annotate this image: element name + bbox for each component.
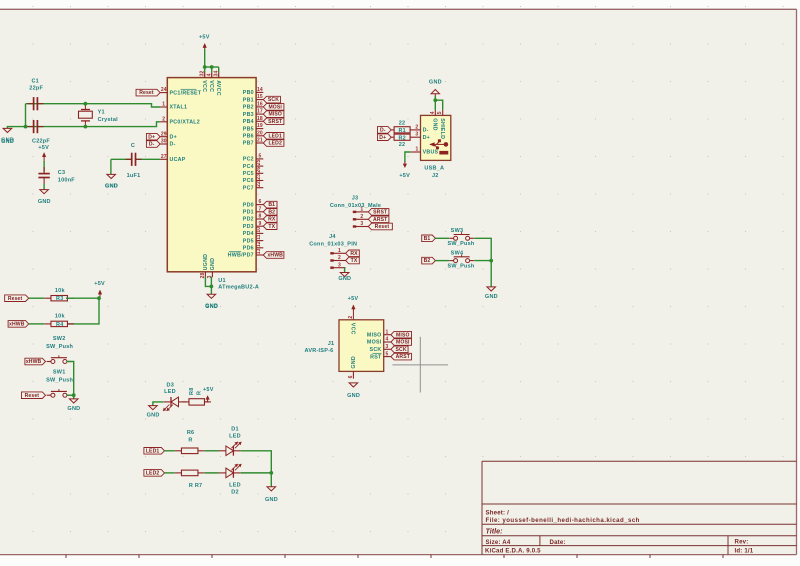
U1 pin 20 PB6 bbox=[243, 130, 263, 139]
svg-text:PD5: PD5 bbox=[243, 238, 254, 244]
svg-text:Reset: Reset bbox=[139, 90, 154, 96]
svg-text:MOSI: MOSI bbox=[396, 340, 410, 346]
svg-text:GND: GND bbox=[432, 118, 438, 131]
resistor R8 bbox=[182, 399, 211, 405]
J1 reference and value bbox=[305, 341, 335, 354]
U1 pin 8 PD2 bbox=[243, 214, 263, 223]
svg-text:KiCad E.D.A. 9.0.5: KiCad E.D.A. 9.0.5 bbox=[485, 548, 541, 555]
global label ARST at J1 pin 5 bbox=[391, 353, 412, 360]
wire UCAP net right bbox=[136, 158, 161, 160]
switch SW4 SW_Push bbox=[447, 250, 474, 269]
svg-text:PB0: PB0 bbox=[243, 90, 254, 96]
wire LED2 to R7 bbox=[165, 472, 175, 474]
R7 reference and value bbox=[189, 483, 203, 489]
crystal Y1 bbox=[79, 104, 93, 127]
U1 pin 26 PC5 bbox=[243, 167, 263, 177]
U1 pin 30 D- bbox=[160, 139, 176, 148]
svg-text:UGND: UGND bbox=[203, 254, 209, 271]
U1 reference and value bbox=[218, 278, 259, 291]
global label SCK at U1 pin 15 bbox=[263, 96, 280, 103]
svg-text:11: 11 bbox=[256, 234, 262, 240]
global label B1 at SW3 bbox=[422, 235, 436, 242]
ground at J4 bbox=[338, 273, 351, 283]
svg-text:6: 6 bbox=[348, 375, 354, 378]
global label D- at R1 bbox=[378, 127, 392, 134]
wire VCC drop 1 bbox=[204, 67, 206, 72]
global label LED1 at U1 pin 20 bbox=[263, 133, 284, 140]
svg-text:C1: C1 bbox=[31, 78, 39, 84]
svg-text:C: C bbox=[131, 143, 135, 149]
svg-text:6: 6 bbox=[258, 199, 261, 205]
wire xHWB to R4 bbox=[29, 323, 45, 325]
svg-text:Id: 1/1: Id: 1/1 bbox=[735, 547, 754, 554]
global label ARST at J3 pin 2 bbox=[368, 216, 389, 223]
svg-text:PD4: PD4 bbox=[243, 231, 254, 237]
power +5V above J1 bbox=[348, 296, 359, 320]
svg-text:10k: 10k bbox=[55, 314, 66, 320]
title block bbox=[482, 461, 797, 554]
R3 reference and value bbox=[55, 288, 66, 302]
svg-text:13: 13 bbox=[256, 248, 262, 254]
svg-text:B2: B2 bbox=[268, 209, 275, 215]
resistor R1 22 bbox=[391, 127, 410, 133]
U1 pin 10 PD4 bbox=[243, 227, 263, 237]
svg-text:xHWB: xHWB bbox=[267, 253, 283, 259]
wire junction to ground bbox=[73, 395, 75, 399]
svg-text:5: 5 bbox=[258, 154, 261, 160]
svg-text:D-: D- bbox=[380, 128, 386, 134]
U1 pin 6 PD0 bbox=[243, 199, 263, 208]
svg-text:Y1: Y1 bbox=[98, 110, 105, 116]
Y1 reference and value bbox=[98, 110, 119, 123]
svg-text:Sheet: /: Sheet: / bbox=[486, 509, 510, 516]
svg-text:Size: A4: Size: A4 bbox=[486, 539, 511, 546]
svg-text:Title:: Title: bbox=[486, 526, 504, 535]
global label D+ at U1 pin 29 bbox=[146, 133, 160, 140]
svg-text:R: R bbox=[188, 437, 192, 443]
svg-text:SCK: SCK bbox=[268, 97, 279, 103]
wire B2 to SW4 bbox=[435, 260, 449, 262]
svg-text:LED2: LED2 bbox=[268, 141, 282, 147]
svg-text:PB4: PB4 bbox=[243, 119, 254, 125]
svg-text:3: 3 bbox=[338, 262, 341, 268]
J3 pin 3 bbox=[353, 221, 369, 228]
cursor crosshair bbox=[392, 337, 448, 393]
junction SW1/SW2 gnd bbox=[72, 393, 76, 397]
wire XTAL1 net bbox=[26, 104, 161, 107]
svg-text:PD1: PD1 bbox=[243, 210, 254, 216]
global label xHWB at SW2 bbox=[25, 358, 46, 365]
J3 pin 1 bbox=[353, 207, 369, 213]
J2 USB icon bbox=[429, 139, 448, 149]
svg-text:SRST: SRST bbox=[268, 119, 283, 125]
svg-text:D-: D- bbox=[170, 142, 176, 148]
wire LED1 to R6 bbox=[165, 450, 175, 452]
U1 pin 19 PB5 bbox=[243, 123, 263, 132]
svg-text:LED: LED bbox=[229, 483, 241, 489]
svg-text:PC5: PC5 bbox=[243, 171, 254, 177]
svg-text:2: 2 bbox=[415, 124, 418, 130]
svg-text:5: 5 bbox=[385, 351, 388, 357]
svg-text:15: 15 bbox=[257, 94, 263, 100]
connector J3 Conn_01x03_Male bbox=[330, 196, 381, 209]
global label xHWB at R4 bbox=[8, 321, 29, 328]
svg-text:SW_Push: SW_Push bbox=[46, 378, 73, 384]
svg-text:B2: B2 bbox=[424, 258, 431, 264]
C2 reference and value bbox=[32, 139, 50, 145]
junction crystal bottom bbox=[84, 125, 88, 129]
svg-text:7: 7 bbox=[258, 206, 261, 212]
svg-text:GND: GND bbox=[147, 413, 160, 419]
svg-text:D1: D1 bbox=[231, 426, 239, 432]
svg-text:30: 30 bbox=[161, 139, 167, 145]
svg-text:Conn_01x03_PIN: Conn_01x03_PIN bbox=[309, 241, 357, 247]
svg-text:5: 5 bbox=[437, 111, 443, 114]
wire UGND to GND net under U1 bbox=[205, 277, 211, 287]
global label Reset at U1 pin 24 bbox=[136, 89, 160, 96]
global label LED2 at U1 pin 21 bbox=[263, 140, 284, 147]
ground below C3 bbox=[38, 190, 51, 205]
svg-text:SW1: SW1 bbox=[53, 370, 66, 376]
svg-text:R: R bbox=[197, 391, 203, 395]
svg-text:22: 22 bbox=[256, 181, 262, 187]
svg-text:D-: D- bbox=[149, 142, 155, 148]
svg-text:J3: J3 bbox=[352, 196, 359, 202]
svg-text:D+: D+ bbox=[423, 135, 430, 141]
junction LED gnd bbox=[269, 471, 273, 475]
J2 pin 1 VBUS bbox=[410, 147, 438, 156]
U1 pin 23 PC6 bbox=[243, 174, 263, 184]
J1 pin 1 MISO bbox=[367, 329, 391, 338]
svg-text:ARST: ARST bbox=[396, 354, 411, 360]
svg-text:SW_Push: SW_Push bbox=[447, 264, 474, 270]
wire VCC drop 2 bbox=[211, 67, 213, 72]
svg-text:PB6: PB6 bbox=[243, 134, 254, 140]
resistor R7 bbox=[175, 470, 205, 476]
svg-text:SCK: SCK bbox=[396, 347, 407, 353]
svg-text:LED: LED bbox=[164, 389, 176, 395]
svg-text:21: 21 bbox=[257, 138, 263, 144]
wire R3 to +5V junction bbox=[66, 297, 99, 299]
svg-text:GND: GND bbox=[347, 393, 360, 399]
U1 pin 34 AVCC bbox=[214, 71, 221, 96]
R6 reference and value bbox=[187, 430, 195, 443]
svg-text:SW2: SW2 bbox=[53, 336, 66, 342]
svg-text:RX: RX bbox=[350, 251, 358, 257]
wire B1 to SW3 bbox=[435, 237, 449, 239]
J1 pin 2 VCC bbox=[348, 316, 356, 335]
svg-text:GND: GND bbox=[1, 139, 14, 145]
U1 pin 16 PB2 bbox=[243, 102, 263, 111]
svg-text:GND: GND bbox=[351, 356, 357, 369]
global label Reset at SW1 bbox=[21, 392, 45, 399]
U1 pin 32 VCC bbox=[200, 71, 207, 93]
global label B2 at U1 pin 7 bbox=[263, 209, 277, 216]
svg-text:+5V: +5V bbox=[199, 34, 210, 40]
switch SW3 SW_Push bbox=[447, 228, 474, 247]
svg-text:XTAL1: XTAL1 bbox=[170, 105, 188, 111]
J1 pin 6 GND bbox=[348, 356, 357, 379]
svg-text:MISO: MISO bbox=[396, 332, 410, 338]
svg-text:GND: GND bbox=[210, 258, 216, 271]
ground below SW1 bbox=[67, 399, 80, 412]
svg-text:C22pF: C22pF bbox=[32, 139, 50, 145]
resistor R6 bbox=[175, 448, 205, 454]
global label MOSI at U1 pin 16 bbox=[263, 104, 284, 111]
C3 reference and value bbox=[58, 170, 75, 183]
U1 pin 11 PD5 bbox=[243, 234, 263, 244]
J2 pin 3 D+ bbox=[410, 132, 430, 141]
svg-text:LED: LED bbox=[229, 434, 241, 440]
svg-text:Rev:: Rev: bbox=[735, 539, 749, 546]
svg-text:xHWB: xHWB bbox=[9, 322, 25, 328]
svg-text:B1: B1 bbox=[424, 236, 431, 242]
J2 reference and value bbox=[424, 165, 444, 179]
svg-text:LED1: LED1 bbox=[268, 133, 282, 139]
wire GND to J2 shield pins bbox=[434, 96, 436, 100]
ground left of D3 bbox=[147, 402, 164, 419]
U1 pin 9 PD3 bbox=[243, 221, 263, 230]
svg-text:SW_Push: SW_Push bbox=[447, 241, 474, 247]
svg-text:PB3: PB3 bbox=[243, 112, 254, 118]
svg-text:19: 19 bbox=[257, 123, 263, 129]
ground below SW3/SW4 bbox=[485, 287, 498, 300]
svg-text:PD2: PD2 bbox=[243, 217, 254, 223]
svg-text:HWB/PD7: HWB/PD7 bbox=[228, 253, 254, 259]
U1 pin 22 PC7 bbox=[243, 181, 263, 191]
R2 reference and value bbox=[398, 135, 406, 148]
resistor R4 10k bbox=[44, 321, 73, 326]
wire junction to ground bbox=[270, 473, 272, 487]
connector J4 Conn_01x03_PIN bbox=[309, 234, 357, 247]
svg-text:J2: J2 bbox=[432, 173, 439, 179]
ground below C4 bbox=[105, 174, 118, 189]
svg-text:1: 1 bbox=[162, 102, 165, 108]
wire +5V rail down to R4 bbox=[66, 298, 99, 324]
svg-text:MISO: MISO bbox=[268, 112, 282, 118]
wire SW1 to junction bbox=[67, 394, 74, 396]
svg-text:Reset: Reset bbox=[8, 296, 23, 302]
U1 pin 5 PC2 bbox=[243, 154, 263, 163]
U1 pin 24 PC1/RESET bbox=[160, 87, 202, 96]
svg-text:8: 8 bbox=[258, 214, 261, 220]
svg-text:+5V: +5V bbox=[203, 387, 214, 393]
svg-text:J1: J1 bbox=[328, 341, 335, 347]
svg-text:AVCC: AVCC bbox=[215, 80, 221, 96]
svg-text:2: 2 bbox=[360, 214, 363, 220]
svg-text:C3: C3 bbox=[58, 170, 66, 176]
svg-text:PD6: PD6 bbox=[243, 246, 254, 252]
global label D+ at R2 bbox=[378, 134, 392, 141]
svg-text:PB1: PB1 bbox=[243, 97, 254, 103]
connector J1 AVR-ISP-6 body bbox=[339, 320, 384, 372]
U1 pin 15 PB1 bbox=[243, 94, 263, 103]
power +5V at pullups bbox=[94, 281, 105, 298]
svg-text:B1: B1 bbox=[268, 202, 275, 208]
svg-text:3: 3 bbox=[360, 221, 363, 227]
resistor R2 22 bbox=[391, 134, 410, 140]
svg-text:SHIELD: SHIELD bbox=[439, 118, 445, 139]
svg-text:R8: R8 bbox=[189, 387, 195, 395]
junction under U1 bbox=[210, 285, 214, 289]
U1 pin 17 PB3 bbox=[243, 109, 263, 118]
wire SW3 to gnd rail bbox=[474, 238, 491, 260]
wire +5V to U1 VCC pins bbox=[204, 49, 206, 67]
global label Reset at R3 bbox=[5, 295, 29, 302]
svg-text:D+: D+ bbox=[170, 134, 177, 140]
svg-text:22pF: 22pF bbox=[29, 86, 43, 92]
global label MOSI at J1 pin 4 bbox=[391, 339, 412, 346]
svg-text:SRST: SRST bbox=[373, 210, 388, 216]
U1 pin 29 D+ bbox=[160, 131, 177, 140]
svg-text:PB7: PB7 bbox=[243, 141, 254, 147]
svg-text:USB_A: USB_A bbox=[424, 165, 444, 171]
U1 pin 1 XTAL1 bbox=[160, 102, 187, 111]
C4 reference and value bbox=[127, 143, 141, 179]
svg-text:AVR-ISP-6: AVR-ISP-6 bbox=[305, 348, 334, 354]
svg-text:GND: GND bbox=[338, 276, 351, 282]
global label Reset at J3 pin 3 bbox=[368, 223, 392, 230]
svg-text:File: youssef-benelli_hedi-hac: File: youssef-benelli_hedi-hachicha.kica… bbox=[486, 517, 640, 524]
wire junction down to ground bbox=[490, 261, 492, 287]
R8 reference and value rotated bbox=[189, 387, 202, 395]
wire UCAP net left bbox=[111, 158, 132, 160]
J4 pin 1 bbox=[330, 248, 345, 255]
svg-text:MISO: MISO bbox=[367, 332, 382, 338]
junction VCC1 bbox=[203, 65, 207, 69]
svg-text:ATmegaBU2-A: ATmegaBU2-A bbox=[218, 285, 259, 291]
U1 pin 7 PD1 bbox=[243, 206, 263, 215]
switch SW2 SW_Push bbox=[46, 336, 73, 364]
svg-text:PD3: PD3 bbox=[243, 224, 254, 230]
svg-text:Reset: Reset bbox=[375, 224, 390, 230]
svg-text:GND: GND bbox=[485, 294, 498, 300]
wire R7 to D2 bbox=[205, 472, 219, 474]
svg-text:29: 29 bbox=[161, 131, 167, 137]
global label RX at J4 pin 1 bbox=[346, 250, 360, 257]
svg-text:PB5: PB5 bbox=[243, 126, 254, 132]
svg-text:GND: GND bbox=[105, 184, 118, 190]
svg-text:23: 23 bbox=[256, 174, 262, 180]
svg-text:R3: R3 bbox=[56, 296, 64, 302]
wire C3 to ground bbox=[43, 184, 45, 190]
svg-text:GND: GND bbox=[205, 304, 218, 310]
global label TX at J4 pin 2 bbox=[346, 257, 360, 264]
U1 pin 13 HWB/PD7 bbox=[228, 248, 264, 258]
svg-text:1: 1 bbox=[338, 248, 341, 254]
svg-text:Date:: Date: bbox=[550, 539, 566, 546]
LED D1 bbox=[219, 442, 242, 456]
wire SW2 to GND rail bbox=[67, 362, 74, 396]
svg-text:24: 24 bbox=[161, 87, 167, 93]
svg-text:12: 12 bbox=[256, 241, 262, 247]
global label B1 at U1 pin 6 bbox=[263, 201, 277, 208]
svg-text:Conn_01x03_Male: Conn_01x03_Male bbox=[330, 203, 381, 209]
svg-text:PB2: PB2 bbox=[243, 105, 254, 111]
svg-text:25: 25 bbox=[256, 159, 262, 165]
svg-text:9: 9 bbox=[258, 221, 261, 227]
junction VCC2 bbox=[210, 65, 214, 69]
global label SRST at J3 pin 1 bbox=[368, 209, 389, 216]
wire D2 to gnd junction bbox=[241, 472, 272, 474]
J2 pin 4 GND bbox=[430, 110, 438, 131]
resistor R3 10k bbox=[44, 296, 73, 301]
svg-text:14: 14 bbox=[257, 87, 263, 93]
svg-text:LED1: LED1 bbox=[146, 448, 160, 454]
svg-text:26: 26 bbox=[256, 167, 262, 173]
J2 connector bar icon bbox=[439, 151, 448, 155]
svg-text:10: 10 bbox=[256, 227, 262, 233]
capacitor C2 bbox=[28, 120, 44, 133]
U1 pin 18 PB4 bbox=[243, 116, 263, 125]
svg-text:LED2: LED2 bbox=[146, 471, 160, 477]
svg-text:22: 22 bbox=[399, 120, 406, 126]
svg-text:1: 1 bbox=[360, 207, 363, 213]
wire SW4 to gnd junction bbox=[474, 260, 491, 262]
wire Reset to R3 bbox=[29, 297, 45, 299]
svg-text:MOSI: MOSI bbox=[268, 105, 282, 111]
capacitor C1 bbox=[28, 97, 44, 110]
svg-text:PC0/XTAL2: PC0/XTAL2 bbox=[170, 120, 201, 126]
svg-text:Crystal: Crystal bbox=[98, 117, 119, 123]
J1 pin 4 MOSI bbox=[367, 337, 391, 346]
connector J2 USB_A body bbox=[421, 115, 451, 160]
svg-text:D+: D+ bbox=[148, 134, 155, 140]
junction pullup bbox=[97, 296, 101, 300]
svg-text:D3: D3 bbox=[167, 382, 175, 388]
svg-text:PC1/RESET: PC1/RESET bbox=[170, 90, 202, 96]
svg-text:GND: GND bbox=[67, 406, 80, 412]
svg-text:+5V: +5V bbox=[399, 173, 410, 179]
LED D2 bbox=[219, 464, 242, 478]
ground below J1 bbox=[347, 383, 360, 399]
U1 pin 2 PC0/XTAL2 bbox=[160, 116, 200, 125]
svg-text:22: 22 bbox=[399, 142, 406, 148]
svg-text:ARST: ARST bbox=[373, 217, 388, 223]
svg-text:4: 4 bbox=[385, 337, 388, 343]
svg-text:R R7: R R7 bbox=[189, 483, 203, 489]
svg-text:4: 4 bbox=[430, 111, 436, 114]
wire +5V to C3 bbox=[43, 161, 45, 172]
svg-text:2: 2 bbox=[348, 316, 354, 319]
svg-text:+5V: +5V bbox=[94, 281, 105, 287]
svg-text:R2: R2 bbox=[398, 135, 406, 141]
svg-text:18: 18 bbox=[257, 116, 263, 122]
global label xHWB at U1 pin 13 bbox=[263, 252, 284, 259]
svg-text:J4: J4 bbox=[329, 234, 336, 240]
wire D1 to gnd rail bbox=[241, 451, 272, 473]
svg-text:SCK: SCK bbox=[370, 347, 382, 353]
global label MISO at U1 pin 17 bbox=[263, 111, 284, 118]
svg-text:+5V: +5V bbox=[38, 145, 49, 151]
junction SW3/SW4 gnd bbox=[489, 259, 493, 263]
U1 pin 21 PB7 bbox=[243, 138, 263, 147]
capacitor C4 1uF bbox=[126, 153, 142, 166]
junction crystal top bbox=[84, 102, 88, 106]
svg-text:VCC: VCC bbox=[208, 80, 214, 92]
svg-text:GND: GND bbox=[429, 79, 442, 85]
wire C1 to C2 vertical bbox=[25, 104, 27, 127]
global label RX at U1 pin 8 bbox=[263, 216, 277, 223]
global label SCK at J1 pin 3 bbox=[391, 346, 408, 353]
wire VBUS to +5V bbox=[405, 152, 410, 162]
svg-text:GND: GND bbox=[265, 497, 278, 503]
J1 pin 3 SCK bbox=[370, 344, 391, 353]
svg-text:TX: TX bbox=[351, 258, 358, 264]
U1 pin 12 PD6 bbox=[243, 241, 263, 251]
svg-text:SW_Push: SW_Push bbox=[46, 344, 73, 350]
svg-text:RX: RX bbox=[268, 217, 276, 223]
